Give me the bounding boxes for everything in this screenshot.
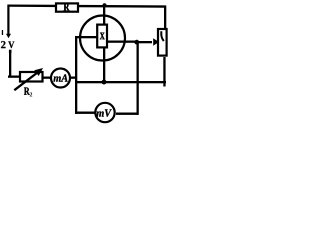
wire right stub from X box	[108, 41, 138, 43]
wire mid-right vertical	[137, 42, 139, 115]
resistor R box	[56, 3, 78, 11]
rheostat R2 diagonal	[14, 73, 37, 91]
label R2	[24, 88, 30, 95]
label mV	[97, 109, 112, 116]
millivoltmeter mV circle	[95, 103, 114, 122]
enclosure circle around X	[80, 16, 125, 61]
wire bottom-left horizontal	[8, 76, 21, 78]
wire battery bottom vertical	[9, 52, 11, 78]
wire mA left	[44, 77, 52, 79]
rheostat wiper bend	[161, 31, 164, 41]
junction dot right	[134, 40, 139, 45]
label I current	[2, 30, 3, 35]
wire center vertical top	[103, 5, 105, 25]
label R	[64, 3, 70, 10]
milliammeter mA circle	[51, 69, 70, 88]
resistor X box	[97, 25, 107, 48]
wire top horizontal left segment	[8, 5, 57, 8]
rheostat R1 box right	[158, 29, 167, 56]
current arrow down	[6, 34, 11, 39]
wire center vertical bottom	[103, 48, 105, 82]
wire wiper arrow horizontal	[137, 41, 152, 43]
wire right vertical to rheostat top	[164, 6, 166, 30]
label mA	[54, 74, 68, 81]
wire rheostat bottom vertical	[163, 57, 165, 87]
rheostat R2 arrowhead	[34, 68, 43, 76]
wire mV right	[116, 113, 138, 115]
junction dot center bottom	[102, 80, 107, 85]
wiper arrowhead	[153, 38, 159, 45]
wire mA right	[70, 77, 76, 79]
wire bottom horizontal bus	[75, 81, 166, 83]
wire left stub to X box	[75, 36, 97, 38]
battery plate blob	[9, 50, 12, 53]
battery 2V label	[1, 41, 5, 48]
wire left mid vertical	[75, 36, 77, 114]
label X	[100, 33, 105, 40]
rheostat R2 box bottom-left	[20, 72, 43, 82]
junction dot top	[103, 3, 107, 7]
wire mV left	[75, 112, 95, 114]
wire top horizontal right segment	[79, 5, 167, 8]
wire battery top vertical	[7, 5, 9, 34]
